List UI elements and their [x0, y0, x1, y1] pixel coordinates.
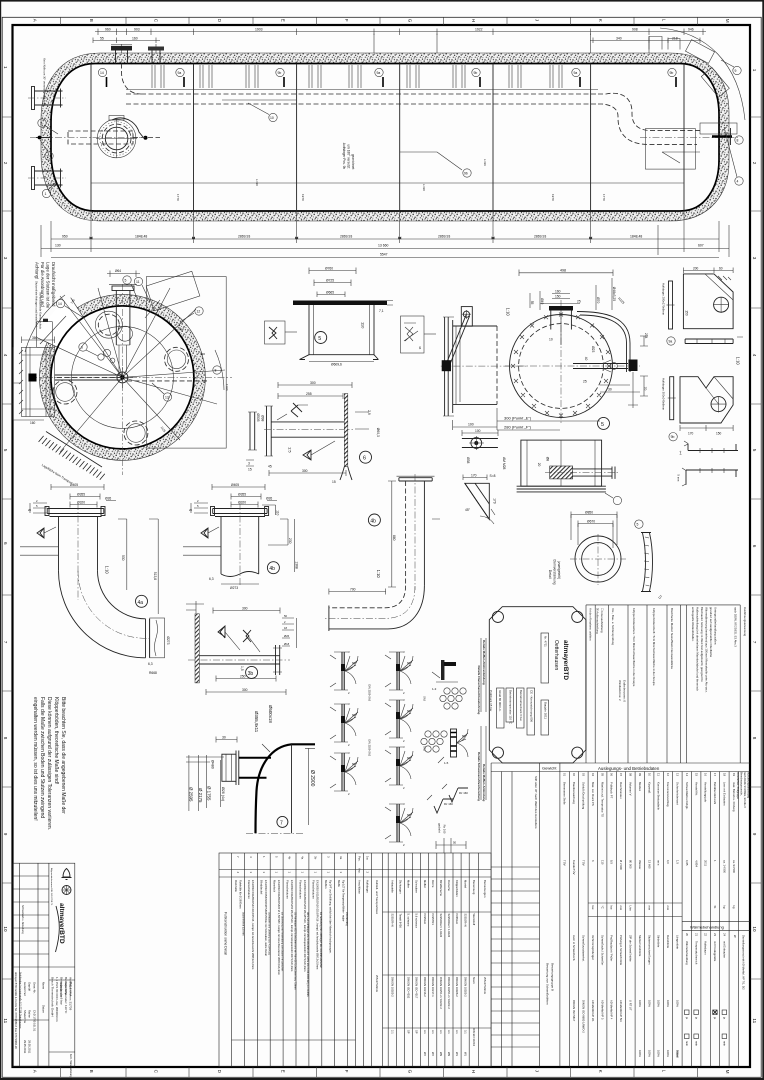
- svg-text:DIN EN 10025-2: DIN EN 10025-2: [463, 977, 467, 997]
- svg-text:0,0: 0,0: [666, 860, 670, 864]
- svg-text:Ø48x3,25: Ø48x3,25: [612, 287, 616, 301]
- svg-text:9a: 9a: [574, 71, 578, 75]
- svg-text:mm: mm: [666, 906, 670, 911]
- svg-text:255: 255: [306, 392, 312, 396]
- svg-text:Mantel: Mantel: [463, 880, 467, 888]
- svg-text:L: L: [662, 19, 667, 22]
- svg-text:1970: 1970: [301, 194, 305, 201]
- svg-text:160: 160: [132, 37, 138, 41]
- svg-text:5.6 schwarz: 5.6 schwarz: [415, 914, 419, 929]
- svg-text:DIN EN 10217-1: DIN EN 10217-1: [431, 977, 435, 997]
- hanger plate 9a: [683, 266, 743, 365]
- transport rest hatch strip: [39, 432, 105, 480]
- svg-text:DIN EN ISO 5817: DIN EN ISO 5817: [572, 1000, 576, 1022]
- svg-text:Gese.-Nr.: Gese.-Nr.: [32, 982, 36, 994]
- svg-text:5: 5: [318, 336, 321, 342]
- svg-text:11: 11: [3, 1018, 8, 1023]
- svg-text:Art der Abnahme: wählen: Art der Abnahme: wählen: [589, 608, 593, 641]
- svg-text:Vor-, Bau- u. Schlussprüfung: Vor-, Bau- u. Schlussprüfung: [611, 608, 615, 645]
- center hub: [117, 372, 128, 383]
- svg-text:Details Muffen-Anbindung: Details Muffen-Anbindung: [482, 764, 486, 801]
- hanger plate 9b: [661, 377, 733, 441]
- svg-text:5: 5: [601, 422, 604, 428]
- svg-text:15: 15: [248, 468, 252, 472]
- mini stud dim sketch above parts table: [436, 838, 466, 853]
- svg-text:300: 300: [242, 688, 248, 692]
- svg-text:10: 10: [647, 773, 651, 777]
- svg-text:Muffe: Muffe: [337, 880, 341, 887]
- svg-text:W4: W4: [431, 1052, 435, 1057]
- svg-text:498: 498: [560, 269, 566, 273]
- svg-text:01: 01: [563, 773, 567, 777]
- svg-text:Auslegungs- und Betriebsdaten: Auslegungs- und Betriebsdaten: [598, 766, 660, 771]
- svg-text:nein: nein: [685, 1041, 689, 1046]
- svg-text:L=96: L=96: [483, 159, 487, 166]
- svg-text:110: 110: [361, 322, 366, 329]
- svg-text:E: E: [281, 19, 286, 22]
- svg-text:30: 30: [608, 388, 612, 392]
- svg-text:Rohre: Rohre: [431, 880, 435, 888]
- svg-text:3a: 3a: [339, 856, 343, 860]
- svg-text:55: 55: [530, 301, 534, 305]
- Gewicht grid: [491, 763, 750, 1067]
- lug dimension arc: [660, 28, 745, 120]
- dimension arcs: [25, 295, 224, 390]
- svg-text:360: 360: [32, 336, 38, 340]
- svg-text:12: 12: [197, 310, 201, 314]
- svg-text:60: 60: [719, 266, 723, 270]
- svg-text:9b: 9b: [671, 435, 675, 439]
- svg-text:8: 8: [752, 737, 757, 740]
- svg-text:1-5: 1-5: [444, 761, 449, 765]
- svg-text:Ø355: Ø355: [238, 492, 246, 496]
- svg-text:960: 960: [105, 28, 111, 32]
- left support flange block: [13, 336, 55, 425]
- svg-text:kg: kg: [723, 906, 727, 909]
- detail 4b flange dims: [189, 483, 277, 513]
- svg-text:03: 03: [582, 773, 586, 777]
- svg-text:W9: W9: [447, 1052, 451, 1057]
- svg-text:Ø26 (4x): Ø26 (4x): [221, 787, 225, 801]
- svg-text:gezeichnet: gezeichnet: [351, 154, 355, 170]
- svg-text:DIN EN 10204: DIN EN 10204: [472, 1028, 476, 1046]
- insulation speckle band: [41, 53, 729, 221]
- svg-text:14: 14: [58, 302, 62, 306]
- mounting angle b: [676, 468, 738, 486]
- svg-text:07: 07: [619, 773, 623, 777]
- top band ticks: [61, 17, 698, 25]
- svg-text:1: 1: [45, 192, 47, 196]
- left note text: [32, 697, 66, 830]
- svg-text:04: 04: [591, 773, 595, 777]
- svg-text:3.1: 3.1: [439, 1030, 443, 1034]
- svg-text:EN10092-5/05/DN600/PN80/P250GH: EN10092-5/05/DN600/PN80/P250GH mit Schra…: [264, 880, 268, 956]
- stud pattern group 2 + striped boss: [421, 729, 468, 765]
- svg-text:Leer mit Einbauten: Leer mit Einbauten: [723, 782, 727, 806]
- svg-text:mit Prodegplatte: mit Prodegplatte: [713, 941, 717, 962]
- left nozzle stub upper: [28, 87, 66, 110]
- svg-text:R668: R668: [149, 671, 157, 675]
- svg-text:Werkstoff: Werkstoff: [472, 914, 476, 926]
- svg-text:grundiert auf sandgestrahlter: grundiert auf sandgestrahlter Oberfläche: [709, 607, 713, 658]
- svg-text:J: J: [535, 1070, 540, 1072]
- svg-text:Ø49: Ø49: [540, 298, 544, 304]
- svg-text:TÜV: TÜV: [582, 860, 586, 866]
- svg-text:Aufhänger 280x170x8mm: Aufhänger 280x170x8mm: [661, 283, 665, 316]
- Dorn front view: [548, 510, 663, 600]
- rotated headings right of weld details: [477, 638, 486, 801]
- svg-text:1: 1: [752, 69, 757, 72]
- svg-text:530: 530: [121, 555, 125, 561]
- svg-text:100%: 100%: [666, 1000, 670, 1007]
- svg-text:110: 110: [276, 510, 280, 515]
- internal dashed heating pipe run: [126, 94, 598, 104]
- hanger flat bar 9a side: [669, 281, 673, 329]
- svg-text:Details Muffen-/Rohranbindung: Details Muffen-/Rohranbindung: [482, 640, 486, 685]
- svg-text:Blindflansche: Blindflansche: [439, 880, 443, 896]
- svg-text:DIN EN 10254-2 / 10222-2: DIN EN 10254-2 / 10222-2: [447, 977, 451, 1009]
- svg-text:P235TR1: P235TR1: [431, 914, 435, 926]
- svg-text:4b: 4b: [370, 519, 376, 525]
- surface finish symbols: [434, 788, 468, 813]
- svg-text:Schweißzusatzwerkst.: Schweißzusatzwerkst.: [582, 935, 586, 962]
- svg-text:Ø60,3: Ø60,3: [376, 428, 380, 437]
- svg-text:4: 4: [737, 180, 739, 184]
- svg-text:☒ Außenaufstellung: ☒ Außenaufstellung: [595, 608, 599, 634]
- svg-text:08: 08: [629, 773, 633, 777]
- svg-text:9: 9: [735, 69, 737, 73]
- svg-text:5: 5: [752, 449, 757, 452]
- svg-text:Datum: Datum: [42, 1005, 46, 1014]
- svg-text:Schrauben und Dichtung ISO 40: Schrauben und Dichtung ISO 4014/4032: [268, 912, 271, 956]
- svg-text:SP: SP: [407, 1030, 411, 1034]
- svg-text:bar: bar: [591, 906, 595, 910]
- svg-text:Ø355: Ø355: [77, 492, 85, 496]
- svg-text:44: 44: [418, 346, 422, 350]
- svg-text:Blechauskl. bolierung im Werk: Blechauskl. bolierung im Werk fest aufge…: [700, 607, 704, 682]
- svg-text:Aufhänger 300x240x8mm: Aufhänger 300x240x8mm: [661, 378, 665, 411]
- right head nozzle at centerline: [712, 128, 743, 145]
- right band ticks: [750, 117, 761, 979]
- svg-text:Ø 2595: Ø 2595: [189, 787, 194, 802]
- svg-text:DIN EN 10216-2: DIN EN 10216-2: [423, 977, 427, 997]
- acceptance block: [586, 605, 686, 763]
- svg-text:Rz 160: Rz 160: [442, 825, 446, 834]
- svg-text:8: 8: [3, 737, 8, 740]
- svg-text:ca. 94 500: ca. 94 500: [732, 860, 736, 874]
- svg-text:Ø38: Ø38: [466, 457, 470, 463]
- svg-text:160: 160: [555, 290, 561, 294]
- svg-text:9,5: 9,5: [610, 860, 614, 864]
- tank shell thick outline: [51, 64, 719, 212]
- svg-text:Klöpperbodenoberfl.: 5cm M: Klöpperbodenoberfl.: 5cm Mischschwarzflä…: [652, 608, 656, 686]
- svg-text:Stift oder UT nach Wahl des He: Stift oder UT nach Wahl des Herstellers: [534, 776, 538, 829]
- svg-text:AD-Merkbl HP 3: AD-Merkbl HP 3: [600, 1000, 604, 1020]
- svg-text:9: 9: [3, 833, 8, 836]
- svg-text:Behälterbau Industriestraße 8: Behälterbau Industriestraße 8 D-72119 Oe…: [19, 972, 22, 1029]
- svg-text:100%: 100%: [638, 1050, 642, 1057]
- svg-text:Mannloch: Mannloch: [273, 880, 277, 893]
- svg-text:280 (Punkt „F“): 280 (Punkt „F“): [504, 425, 532, 430]
- svg-text:170: 170: [688, 432, 694, 436]
- svg-text:Sicherheitsbeiwert: Sicherheitsbeiwert: [676, 782, 680, 805]
- svg-text:mm: mm: [619, 906, 623, 911]
- small nozzle box above support: [37, 322, 53, 348]
- svg-text:eingehalten werden müssen, so: eingehalten werden müssen, so ist dies u…: [32, 697, 38, 821]
- svg-text:4: 4: [3, 354, 8, 357]
- detail 4b elbow: [325, 474, 440, 631]
- right end internal box: [645, 129, 695, 170]
- svg-text:200 mm lang: 200 mm lang: [345, 912, 348, 926]
- svg-text:Rather: Rather: [28, 1010, 32, 1018]
- svg-text:25: 25: [577, 300, 581, 304]
- svg-text:P235GH: P235GH: [423, 914, 427, 924]
- svg-text:160: 160: [30, 421, 36, 425]
- svg-text:255x375x9mm: 255x375x9mm: [375, 975, 379, 992]
- svg-text:Schneidwerk u. Abdeckung: Schneidwerk u. Abdeckung: [21, 905, 24, 935]
- svg-text:DIN EN 10028-2: DIN EN 10028-2: [455, 977, 459, 997]
- svg-text:700: 700: [350, 587, 356, 591]
- svg-text:Ø 2175: Ø 2175: [198, 788, 203, 803]
- svg-text:ja: ja: [694, 1016, 698, 1020]
- svg-text:1160: 1160: [225, 384, 229, 391]
- svg-text:S3 Rohrbogen Ø273,0x6,3mm und: S3 Rohrbogen Ø273,0x6,3mm und ein Rohr Ø…: [293, 912, 296, 990]
- svg-text:880: 880: [392, 535, 396, 541]
- svg-text:Ø8: Ø8: [545, 457, 549, 462]
- svg-text:Durchmesser: Durchmesser: [619, 782, 623, 799]
- svg-text:50: 50: [453, 841, 457, 845]
- svg-text:P265GH: P265GH: [455, 914, 459, 924]
- detail 6: [246, 381, 380, 484]
- svg-text:Gezeichnet: Gezeichnet: [23, 982, 27, 996]
- svg-text:DIN EN ISO 4017: DIN EN ISO 4017: [415, 977, 419, 999]
- svg-text:9b: 9b: [670, 71, 674, 75]
- svg-text:Ø665: Ø665: [326, 290, 334, 294]
- svg-text:Bischfacke Mantel: Nass/Blank: Bischfacke Mantel: Nass/Blank Nennwanddi…: [670, 608, 674, 669]
- svg-text:Behälterstückzahl: Behälterstückzahl: [713, 782, 717, 804]
- svg-text:Ø273: Ø273: [230, 586, 238, 590]
- svg-text:altmayerBTD: altmayerBTD: [562, 640, 569, 680]
- svg-text:Rz 160: Rz 160: [459, 791, 468, 795]
- left band ticks: [2, 117, 12, 979]
- top nozzle N2: [148, 47, 164, 64]
- svg-text:Liter: Liter: [629, 906, 633, 912]
- svg-text:3.1: 3.1: [447, 1030, 451, 1034]
- svg-text:100%: 100%: [638, 1000, 642, 1007]
- svg-text:340: 340: [616, 37, 622, 41]
- svg-text:bar: bar: [610, 906, 614, 910]
- svg-text:Betriebsüberdruck 6 ba: Betriebsüberdruck 6 bar: [519, 690, 523, 721]
- svg-text:Ø505: Ø505: [256, 413, 260, 421]
- svg-text:Ø64: Ø64: [115, 269, 121, 273]
- svg-text:DIN EN 10254-2 / 10222-2: DIN EN 10254-2 / 10222-2: [439, 977, 443, 1009]
- bottom band ticks: [61, 1067, 698, 1077]
- svg-text:Haltedauer: Haltedauer: [704, 941, 708, 955]
- svg-text:Ø 2 900: Ø 2 900: [619, 860, 623, 870]
- svg-text:2,9: 2,9: [367, 410, 371, 415]
- svg-text:9a: 9a: [669, 340, 673, 344]
- detail 4a flange dims: [28, 483, 116, 513]
- lug plates on shell top right: [649, 37, 680, 50]
- svg-text:J: J: [535, 19, 540, 21]
- svg-text:3: 3: [248, 462, 250, 466]
- svg-text:5. schwarz: 5. schwarz: [407, 914, 411, 928]
- svg-text:DIN EN 10025-2: DIN EN 10025-2: [390, 977, 394, 997]
- svg-text:18: 18: [723, 773, 727, 777]
- svg-text:16: 16: [704, 773, 708, 777]
- top dimension line above tank: [95, 29, 706, 36]
- svg-text:110: 110: [600, 860, 604, 865]
- svg-text:Geprüft: Geprüft: [28, 982, 32, 991]
- svg-text:2: 2: [752, 162, 757, 165]
- svg-text:1368: 1368: [294, 561, 298, 569]
- svg-text:Bewertung von Schweißnähten: Bewertung von Schweißnähten: [546, 963, 550, 1005]
- svg-text:908: 908: [632, 28, 638, 32]
- svg-text:S235JR+N: S235JR+N: [463, 914, 467, 927]
- svg-text:SSwietrma: SSwietrma: [23, 1010, 27, 1023]
- svg-text:Fußkonstruktion siehe Detail: Fußkonstruktion siehe Detail: [223, 912, 227, 955]
- svg-text:150: 150: [716, 432, 722, 436]
- svg-text:Ø405: Ø405: [70, 483, 78, 487]
- svg-text:S235JR+N: S235JR+N: [390, 914, 394, 927]
- svg-text:100%: 100%: [676, 1000, 680, 1007]
- svg-text:2869,93: 2869,93: [340, 235, 352, 239]
- svg-text:10: 10: [270, 116, 274, 120]
- svg-text:9: 9: [752, 833, 757, 836]
- svg-text:Rundnähte: Rundnähte: [666, 935, 670, 949]
- svg-text:Korrosive Bestandteile: Korrosive Bestandteile: [657, 782, 661, 810]
- mounting angle a: [678, 441, 738, 455]
- svg-text:Kein Kölls um 30° versetzt gez: Kein Kölls um 30° versetzt gezeichnet: [42, 58, 46, 105]
- svg-text:Dichtungen: Dichtungen: [399, 880, 403, 894]
- svg-text:Ø670: Ø670: [587, 519, 595, 523]
- svg-text:H: H: [471, 19, 476, 22]
- svg-text:Achtung!: Achtung!: [34, 262, 39, 279]
- svg-text:13 660: 13 660: [647, 860, 651, 869]
- svg-text:100: 100: [468, 423, 474, 427]
- svg-text:Aufstell- und Transportösen: Aufstell- und Transportösen: [375, 880, 379, 915]
- svg-text:☐ Innenaufstellung: ☐ Innenaufstellung: [600, 608, 604, 633]
- in-tank leader texts: [222, 100, 296, 115]
- svg-text:EN10092-5/11/B1/DN600 Ø 1,5/PN: EN10092-5/11/B1/DN600 Ø 1,5/PN80 , kompl…: [277, 880, 281, 975]
- svg-text:10: 10: [3, 926, 8, 932]
- item bubbles on shell top: [98, 68, 676, 76]
- svg-text:130: 130: [55, 244, 61, 248]
- svg-text:10: 10: [549, 338, 553, 342]
- svg-text:1: 1: [3, 66, 8, 69]
- svg-text:ja: ja: [723, 1016, 727, 1020]
- svg-text:8: 8: [737, 139, 739, 143]
- svg-text:17: 17: [713, 773, 717, 777]
- svg-text:24: 24: [723, 933, 727, 937]
- svg-text:Ausf. d. Schweißverb.: Ausf. d. Schweißverb.: [572, 935, 576, 961]
- svg-text:1,5: 1,5: [676, 860, 680, 864]
- svg-text:2011: 2011: [704, 860, 708, 866]
- svg-text:CAD 1705 10L 51: CAD 1705 10L 51: [32, 1010, 36, 1032]
- svg-text:Rz 160: Rz 160: [444, 802, 453, 806]
- svg-text:4: 4: [752, 354, 757, 357]
- svg-text:SP: SP: [415, 1030, 419, 1034]
- svg-text:Wärmebehandlung: Wärmebehandlung: [690, 925, 724, 930]
- svg-text:Klöpperbodenunters.: 5cm M: Klöpperbodenunters.: 5cm Mischschwarzflä…: [632, 608, 636, 687]
- svg-text:6: 6: [752, 545, 757, 548]
- svg-text:Prüfdruck PT: Prüfdruck PT: [610, 782, 614, 799]
- dimension lines below tank: [41, 211, 729, 257]
- svg-text:255x375x9mm: 255x375x9mm: [483, 977, 487, 994]
- svg-text:Name: Name: [42, 982, 46, 990]
- stud pattern group 1: [440, 688, 466, 709]
- svg-text:Rohrhülle für Ø 2900mm: Rohrhülle für Ø 2900mm: [238, 880, 242, 908]
- svg-text:13 660: 13 660: [378, 244, 388, 248]
- svg-text:1,5: 1,5: [240, 666, 244, 671]
- svg-text:AD-Merkbl HP 5/3: AD-Merkbl HP 5/3: [619, 1000, 623, 1022]
- svg-text:09: 09: [638, 773, 642, 777]
- svg-text:AD-Merkbl HP 4: AD-Merkbl HP 4: [610, 1000, 614, 1020]
- svg-text:9b: 9b: [474, 71, 478, 75]
- svg-text:W1: W1: [463, 1052, 467, 1057]
- head outline thick: [51, 306, 194, 449]
- svg-text:1:10: 1:10: [736, 357, 741, 366]
- knuckle circle: [71, 326, 173, 428]
- svg-text:2.1: 2.1: [390, 1030, 394, 1034]
- svg-text:Ausführungsanweisung: Ausführungsanweisung: [747, 772, 750, 799]
- svg-text:Flanschstutzen: Flanschstutzen: [286, 880, 290, 899]
- svg-text:altmayer BTD GmbH & Co.KG Tel: altmayer BTD GmbH & Co.KG Tel. 07073/966…: [14, 972, 18, 1049]
- svg-text:EN10092-5/11/B1/DN50 Ø2,6/PN16: EN10092-5/11/B1/DN50 Ø2,6/PN16 , kompl. …: [316, 880, 320, 969]
- svg-text:Aufhänger Pos. 9b: Aufhänger Pos. 9b: [342, 143, 346, 170]
- bell logo: [63, 869, 70, 878]
- svg-text:Stutzenliste Anfragen und best: Stutzenliste Anfragen und bestehend: [34, 281, 38, 327]
- svg-text:Flansche: Flansche: [447, 880, 451, 891]
- svg-text:SA3: SA3: [422, 696, 426, 701]
- svg-text:25: 25: [583, 380, 587, 384]
- title block: [13, 863, 75, 1080]
- svg-text:nach DGRL 97/23/EG, E3 Abs.3: nach DGRL 97/23/EG, E3 Abs.3: [734, 607, 738, 647]
- svg-text:0,85: 0,85: [685, 860, 689, 866]
- svg-text:EN10092-5/11/B1/DN40 Ø2,6/PN16: EN10092-5/11/B1/DN40 Ø2,6/PN16 , kompl. …: [251, 880, 255, 969]
- svg-text:100%: 100%: [647, 1000, 651, 1007]
- svg-text:9a: 9a: [178, 71, 182, 75]
- horizontal pipe to left support: [55, 375, 122, 380]
- svg-text:Längsnähte: Längsnähte: [676, 935, 680, 950]
- svg-text:ZfP der Schweißnähte: ZfP der Schweißnähte: [629, 935, 633, 962]
- svg-text:950: 950: [62, 235, 68, 239]
- svg-text:Pro(Raut)acht / Prüfer: Pro(Raut)acht / Prüfer: [610, 935, 614, 961]
- centerlines: [30, 284, 232, 475]
- svg-text:170: 170: [471, 473, 477, 477]
- svg-text:300: 300: [200, 352, 205, 356]
- svg-text:M: M: [725, 19, 730, 23]
- svg-text:4.854: 4.854: [694, 860, 698, 867]
- svg-text:60°: 60°: [352, 661, 356, 665]
- nozzle circles in head: [95, 311, 122, 338]
- svg-text:Bemerkungen: Bemerkungen: [483, 880, 487, 898]
- svg-text:Volumen V: Volumen V: [629, 782, 633, 796]
- svg-text:Flanschstutzen: Flanschstutzen: [247, 880, 251, 899]
- svg-text:5: 5: [637, 523, 639, 527]
- svg-text:Ø18: Ø18: [284, 642, 290, 646]
- svg-text:Ø 1755: Ø 1755: [206, 786, 211, 801]
- svg-text:Stutzenanschweißungen: Stutzenanschweißungen: [647, 935, 651, 965]
- svg-text:20: 20: [685, 933, 689, 937]
- dashed box near manhole: [68, 131, 133, 144]
- svg-text:3.1: 3.1: [463, 1030, 467, 1034]
- svg-text:100%: 100%: [657, 1050, 661, 1057]
- svg-text:gedreht: gedreht: [437, 823, 441, 833]
- svg-text:2: 2: [3, 162, 8, 165]
- svg-text:5547: 5547: [380, 253, 388, 257]
- svg-text:6: 6: [363, 456, 366, 462]
